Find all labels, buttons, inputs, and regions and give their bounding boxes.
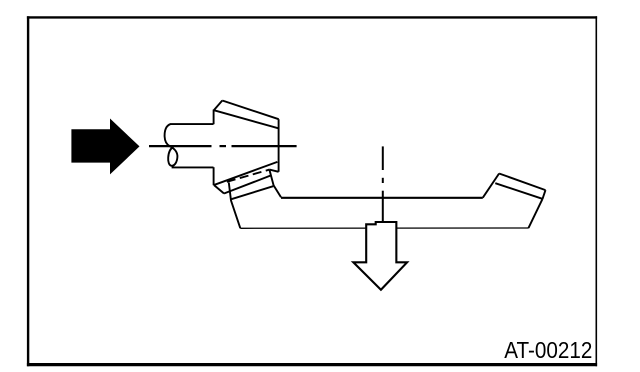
svg-text:AT-00212: AT-00212 [504,337,592,363]
